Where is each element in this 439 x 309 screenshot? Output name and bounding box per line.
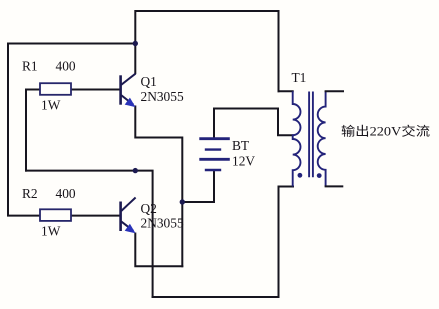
svg-text:400: 400 (56, 186, 76, 201)
node B junction dot (Q2 collector / R1 feedback) (133, 168, 138, 173)
svg-text:400: 400 (56, 59, 76, 74)
wire R2 right lead to Q2 base (71, 215, 119, 217)
transistor Q1 emitter arrow (125, 98, 136, 108)
svg-text:输出220V交流: 输出220V交流 (341, 124, 431, 139)
svg-text:T1: T1 (292, 70, 307, 85)
wire transformer primary top lead (279, 90, 293, 92)
wire top rail Q1 collector to transformer (135, 11, 278, 91)
svg-text:1W: 1W (41, 224, 61, 239)
svg-text:Q1: Q1 (141, 74, 157, 89)
resistor R1 body (40, 83, 71, 95)
wire feedback top (node A to outer rail) (8, 44, 134, 216)
wire R1 right lead to Q1 base (71, 89, 120, 91)
node A junction dot (Q1 collector / R2 feedback) (133, 41, 138, 46)
wire Q1 emitter run (135, 107, 182, 267)
wire battery plus to center tap (214, 109, 293, 139)
wire Q2 emitter run (135, 234, 182, 267)
svg-text:BT: BT (232, 138, 249, 153)
resistor R2 body (40, 209, 71, 221)
svg-text:2N3055: 2N3055 (141, 89, 184, 104)
transistor Q1 symbol (121, 74, 136, 105)
node C junction dot (emitters / battery minus) (180, 199, 185, 204)
wire secondary top output stub (326, 90, 343, 92)
svg-text:1W: 1W (41, 97, 61, 112)
transformer T1 secondary winding (right) (318, 91, 326, 186)
transformer primary phase dot (298, 173, 303, 178)
wire node B to Q2 collector drop (135, 171, 152, 297)
wire feedback bottom (inner rail to node B) (26, 170, 135, 172)
transformer secondary phase dot (317, 173, 322, 178)
svg-text:R2: R2 (22, 186, 38, 201)
wire R1 left lead and inner rail (26, 90, 40, 171)
svg-text:12V: 12V (232, 153, 255, 168)
wire emitter node to battery minus (182, 170, 214, 202)
svg-text:Q2: Q2 (141, 201, 157, 216)
transistor Q2 emitter arrow (125, 224, 136, 234)
battery BT plates (199, 139, 230, 170)
svg-text:R1: R1 (22, 59, 38, 74)
transistor Q2 symbol (121, 198, 136, 232)
wire secondary bottom output stub (326, 185, 343, 187)
transformer T1 core (309, 92, 313, 178)
wire bottom rail to transformer primary bottom (153, 187, 293, 298)
svg-text:2N3055: 2N3055 (141, 216, 184, 231)
transformer T1 primary winding (left, with center tap) (293, 91, 301, 186)
